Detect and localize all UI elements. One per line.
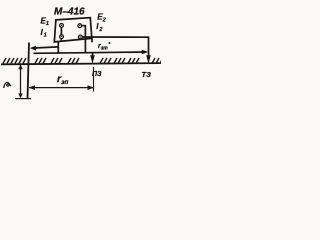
svg-text:ПЗ: ПЗ bbox=[92, 71, 102, 78]
svg-text:М–416: М–416 bbox=[54, 7, 85, 18]
svg-text:ТЗ: ТЗ bbox=[142, 70, 152, 79]
